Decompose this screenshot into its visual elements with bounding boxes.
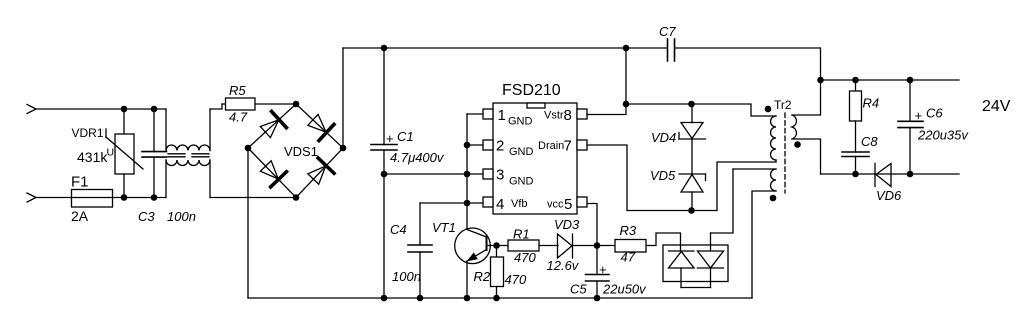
node junction top C3 (151, 106, 158, 113)
svg-text:R1: R1 (513, 227, 530, 242)
capacitor C3 (142, 109, 167, 198)
svg-text:1: 1 (498, 107, 506, 124)
svg-text:Drain: Drain (538, 140, 564, 152)
VD7 left diode (669, 250, 695, 252)
node clamp bottom (688, 207, 695, 214)
input terminal N (bottom) (27, 193, 36, 202)
wire output plus rail (821, 79, 960, 81)
svg-text:8: 8 (564, 107, 572, 124)
svg-text:C5: C5 (570, 282, 587, 297)
Tr2 primary phase dot (765, 106, 772, 113)
svg-text:C3: C3 (138, 209, 155, 224)
svg-text:4.7: 4.7 (229, 110, 248, 125)
svg-text:+: + (915, 108, 923, 123)
node C1 top (381, 45, 388, 52)
node junction top VDR (121, 106, 128, 113)
wire bridge minus down (247, 148, 249, 298)
diode VD3 (558, 234, 616, 258)
transformer Tr2 aux winding (733, 169, 776, 298)
node Vstr HV (623, 101, 630, 108)
node junction bottom C3 (151, 194, 158, 201)
bridge diode top-right (305, 112, 334, 141)
bridge rectifier VDS1 (248, 104, 343, 198)
Tr2 secondary phase dot (794, 141, 801, 148)
capacitor C6 (898, 80, 923, 174)
diode VD6 (875, 164, 891, 187)
pin 8 stub (577, 109, 587, 119)
svg-text:vcc: vcc (547, 199, 564, 211)
node rail C4 (417, 295, 424, 302)
common-mode choke top winding (166, 104, 222, 151)
bridge diode top-left (258, 111, 287, 140)
svg-text:22u50v: 22u50v (602, 282, 647, 297)
wire top input (36, 108, 166, 110)
pin 4 stub (483, 197, 493, 207)
input terminal L (top) (27, 105, 36, 114)
svg-text:470: 470 (505, 272, 527, 287)
VD7 bottom tab (681, 287, 711, 289)
svg-text:C7: C7 (659, 24, 676, 39)
node vcc C5 junction (594, 242, 601, 249)
wire pin3 to C1 (384, 173, 483, 175)
wire pin4 Vfb (420, 202, 483, 204)
node bridge right (340, 145, 347, 152)
transistor Q1 VT1 (455, 228, 497, 298)
pin 5 stub (577, 197, 587, 207)
svg-text:R2: R2 (474, 269, 491, 284)
wire bridge plus up (342, 48, 344, 148)
resistor R1 (508, 240, 558, 251)
VD7 right diode (698, 251, 724, 268)
svg-text:VDR1: VDR1 (72, 126, 104, 140)
capacitor C4 (408, 203, 432, 298)
diode VD5 (679, 139, 706, 211)
node C6 bottom (907, 171, 914, 178)
svg-text:C1: C1 (397, 129, 414, 144)
pin 2 stub (483, 140, 493, 150)
svg-text:2A: 2A (71, 208, 89, 224)
svg-text:VD6: VD6 (876, 188, 902, 203)
node Vstr branch top (623, 45, 630, 52)
node C6 top (907, 77, 914, 84)
node C1 bottom (381, 171, 388, 178)
node bridge top (293, 101, 300, 108)
choke core (168, 154, 209, 157)
IC U1 FSD210 body (493, 103, 577, 214)
wire HV node to transformer (626, 104, 776, 116)
svg-text:VD5: VD5 (650, 168, 676, 183)
wire HV top rail (343, 47, 668, 49)
svg-text:R5: R5 (229, 83, 246, 98)
Tr2 aux phase dot (770, 195, 777, 202)
svg-text:F1: F1 (71, 174, 89, 191)
svg-text:GND: GND (508, 116, 533, 128)
svg-text:47: 47 (621, 250, 636, 265)
node rail R2 (493, 295, 500, 302)
svg-text:U: U (107, 147, 115, 159)
bridge diode bottom-right (305, 158, 334, 187)
varistor VDR1 (106, 109, 143, 198)
transformer Tr2 secondary (792, 80, 821, 174)
node pin3 junction (464, 171, 471, 178)
diode VD4 (679, 104, 706, 139)
svg-text:Vfb: Vfb (511, 198, 528, 210)
wire C1 ground down (383, 174, 385, 298)
Tr2 core (784, 113, 786, 193)
resistor R5 (222, 98, 296, 110)
svg-text:+: + (599, 262, 607, 277)
svg-text:+: + (386, 131, 394, 146)
capacitor C8 (842, 121, 869, 174)
wire pin5 vcc (587, 204, 597, 246)
transformer Tr2 primary (771, 116, 777, 162)
resistor R4 (850, 80, 862, 121)
wire VD7 to aux winding (711, 169, 734, 233)
svg-text:7: 7 (564, 138, 572, 155)
svg-text:5: 5 (564, 196, 572, 213)
wire base to R1 (497, 245, 509, 247)
pin 7 stub (577, 140, 587, 150)
bridge diode bottom-left (258, 158, 287, 187)
dual diode VD7 box (663, 169, 733, 288)
pin 3 stub (483, 169, 493, 179)
wire top rail right of C7 (675, 48, 821, 80)
node base junction (493, 242, 500, 249)
svg-text:4: 4 (496, 196, 504, 213)
svg-text:2: 2 (496, 138, 504, 155)
node R4 top (852, 77, 859, 84)
svg-text:4.7μ400v: 4.7μ400v (390, 150, 445, 165)
svg-text:3: 3 (496, 167, 504, 184)
wire output minus rail (821, 173, 960, 175)
svg-text:Tr2: Tr2 (774, 98, 792, 112)
node output plus (817, 77, 824, 84)
svg-text:100n: 100n (167, 209, 196, 224)
wire gnd bus vertical (466, 114, 468, 229)
node rail C1 (381, 295, 388, 302)
capacitor C7 (668, 39, 675, 61)
svg-text:100n: 100n (392, 269, 421, 284)
wire ground rail (248, 297, 752, 299)
svg-text:C8: C8 (861, 134, 878, 149)
svg-text:220u35v: 220u35v (917, 128, 969, 143)
common-mode choke bottom winding (166, 160, 296, 198)
svg-text:FSD210: FSD210 (502, 82, 561, 99)
svg-text:R4: R4 (863, 96, 880, 111)
svg-text:24V: 24V (982, 98, 1011, 115)
svg-text:C6: C6 (926, 106, 943, 121)
pin 1 stub (483, 109, 493, 119)
capacitor C5 (586, 246, 610, 299)
node pin2 junction (464, 142, 471, 149)
wire pin8 Vstr (587, 48, 626, 115)
resistor R2 (491, 246, 504, 299)
resistor R3 (615, 233, 681, 252)
node bridge left (245, 145, 252, 152)
svg-text:VD4: VD4 (651, 130, 676, 145)
svg-text:C4: C4 (390, 222, 407, 237)
wire pin7 Drain (587, 145, 776, 211)
svg-text:VT1: VT1 (432, 220, 456, 235)
node clamp top (688, 101, 695, 108)
node junction bottom VDR (121, 194, 128, 201)
svg-text:VDS1: VDS1 (284, 144, 318, 159)
node C8 bottom (852, 171, 859, 178)
svg-text:R3: R3 (620, 223, 637, 238)
svg-text:GND: GND (509, 146, 534, 158)
capacitor C1 (371, 48, 397, 174)
node rail C5 (594, 295, 601, 302)
svg-text:Vstr: Vstr (544, 110, 564, 122)
svg-text:431k: 431k (77, 149, 108, 165)
node pin4 junction (464, 200, 471, 207)
svg-text:12.6v: 12.6v (547, 258, 580, 273)
wire pin2 (467, 144, 483, 146)
node rail VT1 emitter (464, 295, 471, 302)
svg-text:GND: GND (509, 176, 534, 188)
svg-text:VD3: VD3 (554, 217, 580, 232)
wire bottom input (36, 197, 166, 199)
svg-text:470: 470 (514, 250, 536, 265)
fuse F1 (72, 190, 113, 208)
node bridge bottom (293, 194, 300, 201)
wire pin1 to gnd bus (467, 113, 483, 115)
